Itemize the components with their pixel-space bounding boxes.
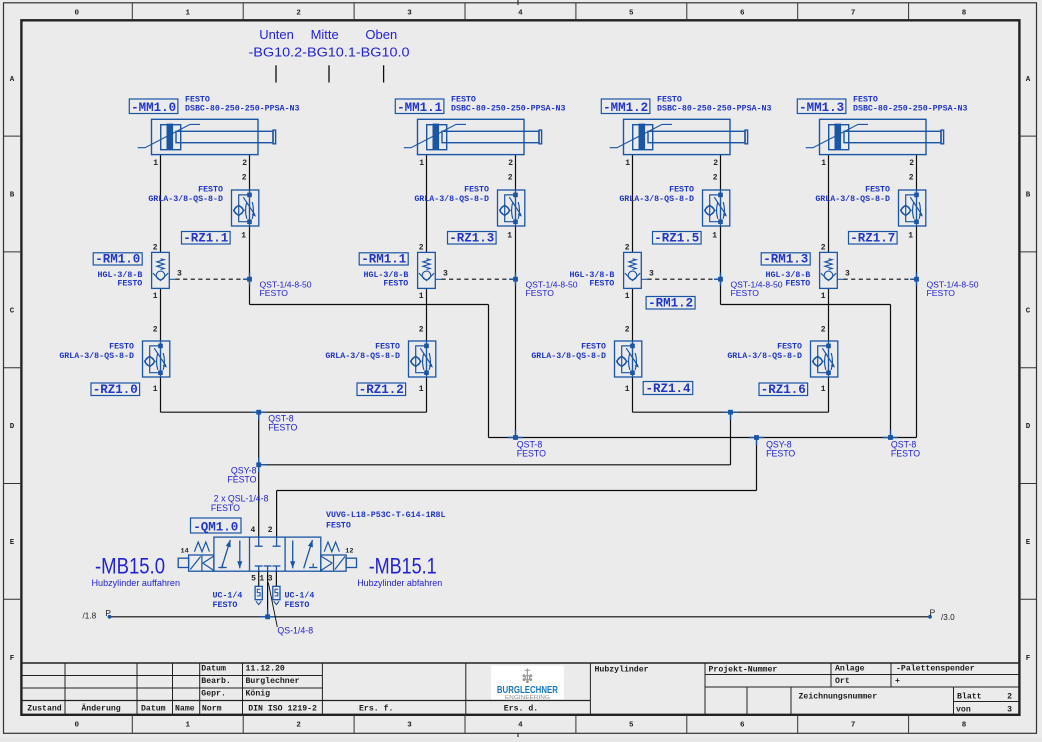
svg-text:C: C (10, 307, 15, 315)
svg-text:3: 3 (845, 269, 850, 278)
svg-text:GRLA-3/8-QS-8-D: GRLA-3/8-QS-8-D (59, 351, 134, 361)
svg-text:GRLA-3/8-QS-8-D: GRLA-3/8-QS-8-D (727, 351, 802, 361)
svg-text:FESTO: FESTO (117, 280, 142, 289)
svg-text:2: 2 (713, 174, 718, 183)
svg-text:B: B (10, 192, 15, 200)
svg-text:2: 2 (909, 174, 914, 183)
svg-text:Hubzylinder abfahren: Hubzylinder abfahren (357, 578, 442, 588)
svg-text:2: 2 (268, 526, 273, 535)
svg-text:FESTO: FESTO (785, 280, 810, 289)
svg-text:DSBC-80-250-250-PPSA-N3: DSBC-80-250-250-PPSA-N3 (451, 105, 566, 114)
svg-text:D: D (10, 423, 15, 431)
svg-text:1: 1 (185, 9, 190, 17)
svg-text:F: F (1026, 655, 1031, 663)
svg-text:1: 1 (153, 385, 158, 394)
svg-text:1: 1 (507, 231, 512, 240)
svg-text:2: 2 (1007, 693, 1012, 702)
svg-text:-RM1.0: -RM1.0 (95, 252, 140, 266)
svg-text:-MM1.0: -MM1.0 (131, 101, 176, 115)
svg-text:FESTO: FESTO (865, 185, 890, 194)
svg-text:F: F (10, 655, 15, 663)
svg-text:P: P (105, 608, 111, 618)
svg-text:1: 1 (419, 292, 424, 301)
svg-text:VUVG-L18-P53C-T-G14-1R8L: VUVG-L18-P53C-T-G14-1R8L (326, 511, 446, 520)
svg-text:2: 2 (625, 325, 630, 334)
svg-text:GRLA-3/8-QS-8-D: GRLA-3/8-QS-8-D (148, 194, 223, 204)
svg-text:-RZ1.2: -RZ1.2 (359, 383, 404, 397)
svg-text:2: 2 (713, 159, 718, 168)
svg-text:HGL-3/8-B: HGL-3/8-B (363, 270, 408, 280)
svg-text:FESTO: FESTO (731, 288, 760, 298)
svg-text:FESTO: FESTO (260, 288, 289, 298)
svg-text:GRLA-3/8-QS-8-D: GRLA-3/8-QS-8-D (414, 194, 489, 204)
svg-text:1: 1 (821, 292, 826, 301)
svg-text:D: D (1026, 423, 1031, 431)
svg-text:DSBC-80-250-250-PPSA-N3: DSBC-80-250-250-PPSA-N3 (853, 105, 968, 114)
svg-text:14: 14 (181, 547, 189, 555)
svg-text:1: 1 (625, 385, 630, 394)
svg-text:-RZ1.6: -RZ1.6 (761, 383, 806, 397)
svg-text:QS-1/4-8: QS-1/4-8 (277, 625, 313, 635)
svg-text:-QM1.0: -QM1.0 (193, 520, 238, 534)
svg-text:3: 3 (268, 575, 273, 584)
svg-text:FESTO: FESTO (464, 185, 489, 194)
svg-text:2: 2 (242, 174, 247, 183)
svg-text:Hubzylinder auffahren: Hubzylinder auffahren (92, 578, 181, 588)
svg-text:C: C (1026, 307, 1031, 315)
svg-text:FESTO: FESTO (657, 96, 682, 105)
svg-text:2: 2 (153, 243, 158, 252)
svg-text:Datum: Datum (201, 664, 226, 673)
svg-text:FESTO: FESTO (211, 503, 240, 513)
svg-text:8: 8 (962, 722, 967, 730)
svg-text:UC-1/4: UC-1/4 (213, 591, 243, 601)
svg-text:A: A (1026, 76, 1031, 84)
svg-text:5: 5 (629, 9, 634, 17)
svg-text:3: 3 (443, 269, 448, 278)
svg-text:1: 1 (153, 292, 158, 301)
svg-text:Ort: Ort (835, 677, 850, 686)
svg-text:Norm: Norm (202, 704, 222, 713)
svg-text:FESTO: FESTO (383, 280, 408, 289)
svg-text:UC-1/4: UC-1/4 (285, 591, 315, 601)
svg-text:1: 1 (259, 575, 264, 584)
svg-text:GRLA-3/8-QS-8-D: GRLA-3/8-QS-8-D (619, 194, 694, 204)
svg-text:2: 2 (153, 325, 158, 334)
svg-text:1: 1 (908, 231, 913, 240)
svg-text:4: 4 (250, 526, 255, 535)
svg-text:Name: Name (175, 704, 195, 713)
svg-text:DSBC-80-250-250-PPSA-N3: DSBC-80-250-250-PPSA-N3 (185, 105, 300, 114)
svg-text:Oben: Oben (365, 27, 397, 42)
svg-text:1: 1 (153, 159, 158, 168)
svg-text:-RZ1.5: -RZ1.5 (654, 231, 699, 245)
svg-text:FESTO: FESTO (227, 474, 256, 484)
svg-text:von: von (956, 706, 971, 715)
svg-text:3: 3 (177, 269, 182, 278)
svg-text:Änderung: Änderung (81, 702, 120, 713)
svg-text:+: + (895, 677, 900, 686)
svg-text:E: E (10, 539, 15, 547)
svg-text:-MB15.0: -MB15.0 (95, 554, 165, 579)
svg-text:-RZ1.4: -RZ1.4 (645, 382, 691, 396)
svg-text:Blatt: Blatt (957, 692, 982, 702)
svg-text:DIN ISO 1219-2: DIN ISO 1219-2 (248, 704, 317, 713)
svg-text:FESTO: FESTO (185, 96, 210, 105)
svg-text:FESTO: FESTO (766, 448, 795, 458)
svg-text:FESTO: FESTO (285, 601, 310, 610)
svg-text:-MB15.1: -MB15.1 (369, 554, 437, 579)
svg-text:-RZ1.3: -RZ1.3 (449, 231, 494, 245)
svg-text:1: 1 (419, 385, 424, 394)
svg-text:DSBC-80-250-250-PPSA-N3: DSBC-80-250-250-PPSA-N3 (657, 105, 772, 114)
svg-text:FESTO: FESTO (927, 288, 956, 298)
svg-text:Ers. d.: Ers. d. (504, 703, 538, 713)
svg-text:FESTO: FESTO (581, 343, 606, 352)
svg-text:-RM1.2: -RM1.2 (648, 296, 693, 310)
svg-text:HGL-3/8-B: HGL-3/8-B (97, 270, 142, 280)
svg-text:11.12.20: 11.12.20 (246, 664, 285, 673)
svg-text:2: 2 (419, 243, 424, 252)
svg-text:1: 1 (625, 159, 630, 168)
svg-text:-BG10.2-BG10.1-BG10.0: -BG10.2-BG10.1-BG10.0 (249, 44, 410, 59)
svg-text:/1.8: /1.8 (83, 611, 97, 620)
svg-text:HGL-3/8-B: HGL-3/8-B (765, 270, 810, 280)
svg-text:2: 2 (242, 159, 247, 168)
svg-text:Burglechner: Burglechner (246, 676, 300, 686)
svg-text:0: 0 (75, 9, 80, 17)
svg-text:FESTO: FESTO (213, 601, 238, 610)
svg-text:1: 1 (419, 159, 424, 168)
svg-text:FESTO: FESTO (517, 448, 546, 458)
svg-text:Bearb.: Bearb. (201, 676, 230, 686)
svg-text:0: 0 (75, 722, 80, 730)
svg-text:2: 2 (909, 159, 914, 168)
svg-text:2: 2 (821, 243, 826, 252)
svg-text:Projekt-Nummer: Projekt-Nummer (709, 665, 778, 675)
svg-text:HGL-3/8-B: HGL-3/8-B (569, 270, 614, 280)
svg-text:7: 7 (851, 722, 856, 730)
svg-text:FESTO: FESTO (777, 343, 802, 352)
svg-text:6: 6 (740, 9, 745, 17)
svg-text:3: 3 (1007, 706, 1012, 715)
svg-text:GRLA-3/8-QS-8-D: GRLA-3/8-QS-8-D (325, 351, 400, 361)
svg-text:-Palettenspender: -Palettenspender (896, 664, 975, 674)
svg-text:Datum: Datum (141, 704, 166, 713)
svg-text:-RM1.3: -RM1.3 (763, 252, 808, 266)
svg-text:1: 1 (625, 292, 630, 301)
svg-text:-RZ1.0: -RZ1.0 (93, 383, 138, 397)
svg-text:1: 1 (185, 722, 190, 730)
svg-text:2: 2 (508, 174, 513, 183)
svg-text:FESTO: FESTO (669, 185, 694, 194)
svg-text:2: 2 (419, 325, 424, 334)
svg-text:1: 1 (712, 231, 717, 240)
svg-text:5: 5 (251, 575, 256, 584)
svg-text:FESTO: FESTO (451, 96, 476, 105)
svg-text:5: 5 (629, 722, 634, 730)
svg-text:Zeichnungsnummer: Zeichnungsnummer (799, 692, 878, 702)
svg-text:4: 4 (518, 722, 523, 730)
svg-text:2: 2 (821, 325, 826, 334)
svg-text:FESTO: FESTO (375, 343, 400, 352)
svg-text:Ers. f.: Ers. f. (359, 703, 393, 713)
svg-text:2: 2 (508, 159, 513, 168)
svg-text:1: 1 (241, 231, 246, 240)
svg-text:2: 2 (296, 722, 301, 730)
svg-text:FESTO: FESTO (853, 96, 878, 105)
svg-text:FESTO: FESTO (526, 288, 555, 298)
svg-text:6: 6 (740, 722, 745, 730)
svg-text:4: 4 (518, 9, 523, 17)
svg-text:1: 1 (821, 159, 826, 168)
svg-text:-MM1.3: -MM1.3 (799, 101, 844, 115)
svg-text:FESTO: FESTO (589, 280, 614, 289)
svg-text:FESTO: FESTO (268, 422, 297, 432)
svg-text:3: 3 (407, 9, 412, 17)
svg-text:3: 3 (407, 722, 412, 730)
svg-text:7: 7 (851, 9, 856, 17)
svg-text:FESTO: FESTO (198, 185, 223, 194)
svg-text:Anlage: Anlage (835, 664, 865, 674)
svg-text:E: E (1026, 539, 1031, 547)
svg-text:FESTO: FESTO (109, 343, 134, 352)
svg-text:ENGINEERING: ENGINEERING (505, 695, 550, 701)
svg-text:Mitte: Mitte (311, 27, 339, 42)
svg-text:Zustand: Zustand (27, 703, 61, 713)
svg-text:Hubzylinder: Hubzylinder (595, 665, 649, 675)
svg-text:Gepr.: Gepr. (201, 690, 226, 699)
svg-text:B: B (1026, 192, 1031, 200)
svg-text:-RZ1.7: -RZ1.7 (850, 231, 895, 245)
svg-text:P: P (930, 607, 936, 617)
svg-text:2: 2 (625, 243, 630, 252)
svg-text:König: König (246, 689, 271, 699)
svg-text:2: 2 (296, 9, 301, 17)
svg-text:-MM1.1: -MM1.1 (397, 101, 442, 115)
svg-text:3: 3 (649, 269, 654, 278)
svg-text:A: A (10, 76, 15, 84)
svg-text:-RZ1.1: -RZ1.1 (183, 231, 228, 245)
svg-text:1: 1 (821, 385, 826, 394)
svg-text:Unten: Unten (259, 27, 294, 42)
svg-text:-MM1.2: -MM1.2 (603, 101, 648, 115)
svg-text:/3.0: /3.0 (941, 613, 955, 622)
svg-text:8: 8 (962, 9, 967, 17)
svg-text:FESTO: FESTO (891, 448, 920, 458)
svg-text:-RM1.1: -RM1.1 (361, 252, 406, 266)
svg-text:GRLA-3/8-QS-8-D: GRLA-3/8-QS-8-D (815, 194, 890, 204)
svg-text:FESTO: FESTO (326, 521, 351, 530)
svg-text:GRLA-3/8-QS-8-D: GRLA-3/8-QS-8-D (531, 351, 606, 361)
svg-text:12: 12 (345, 547, 353, 555)
